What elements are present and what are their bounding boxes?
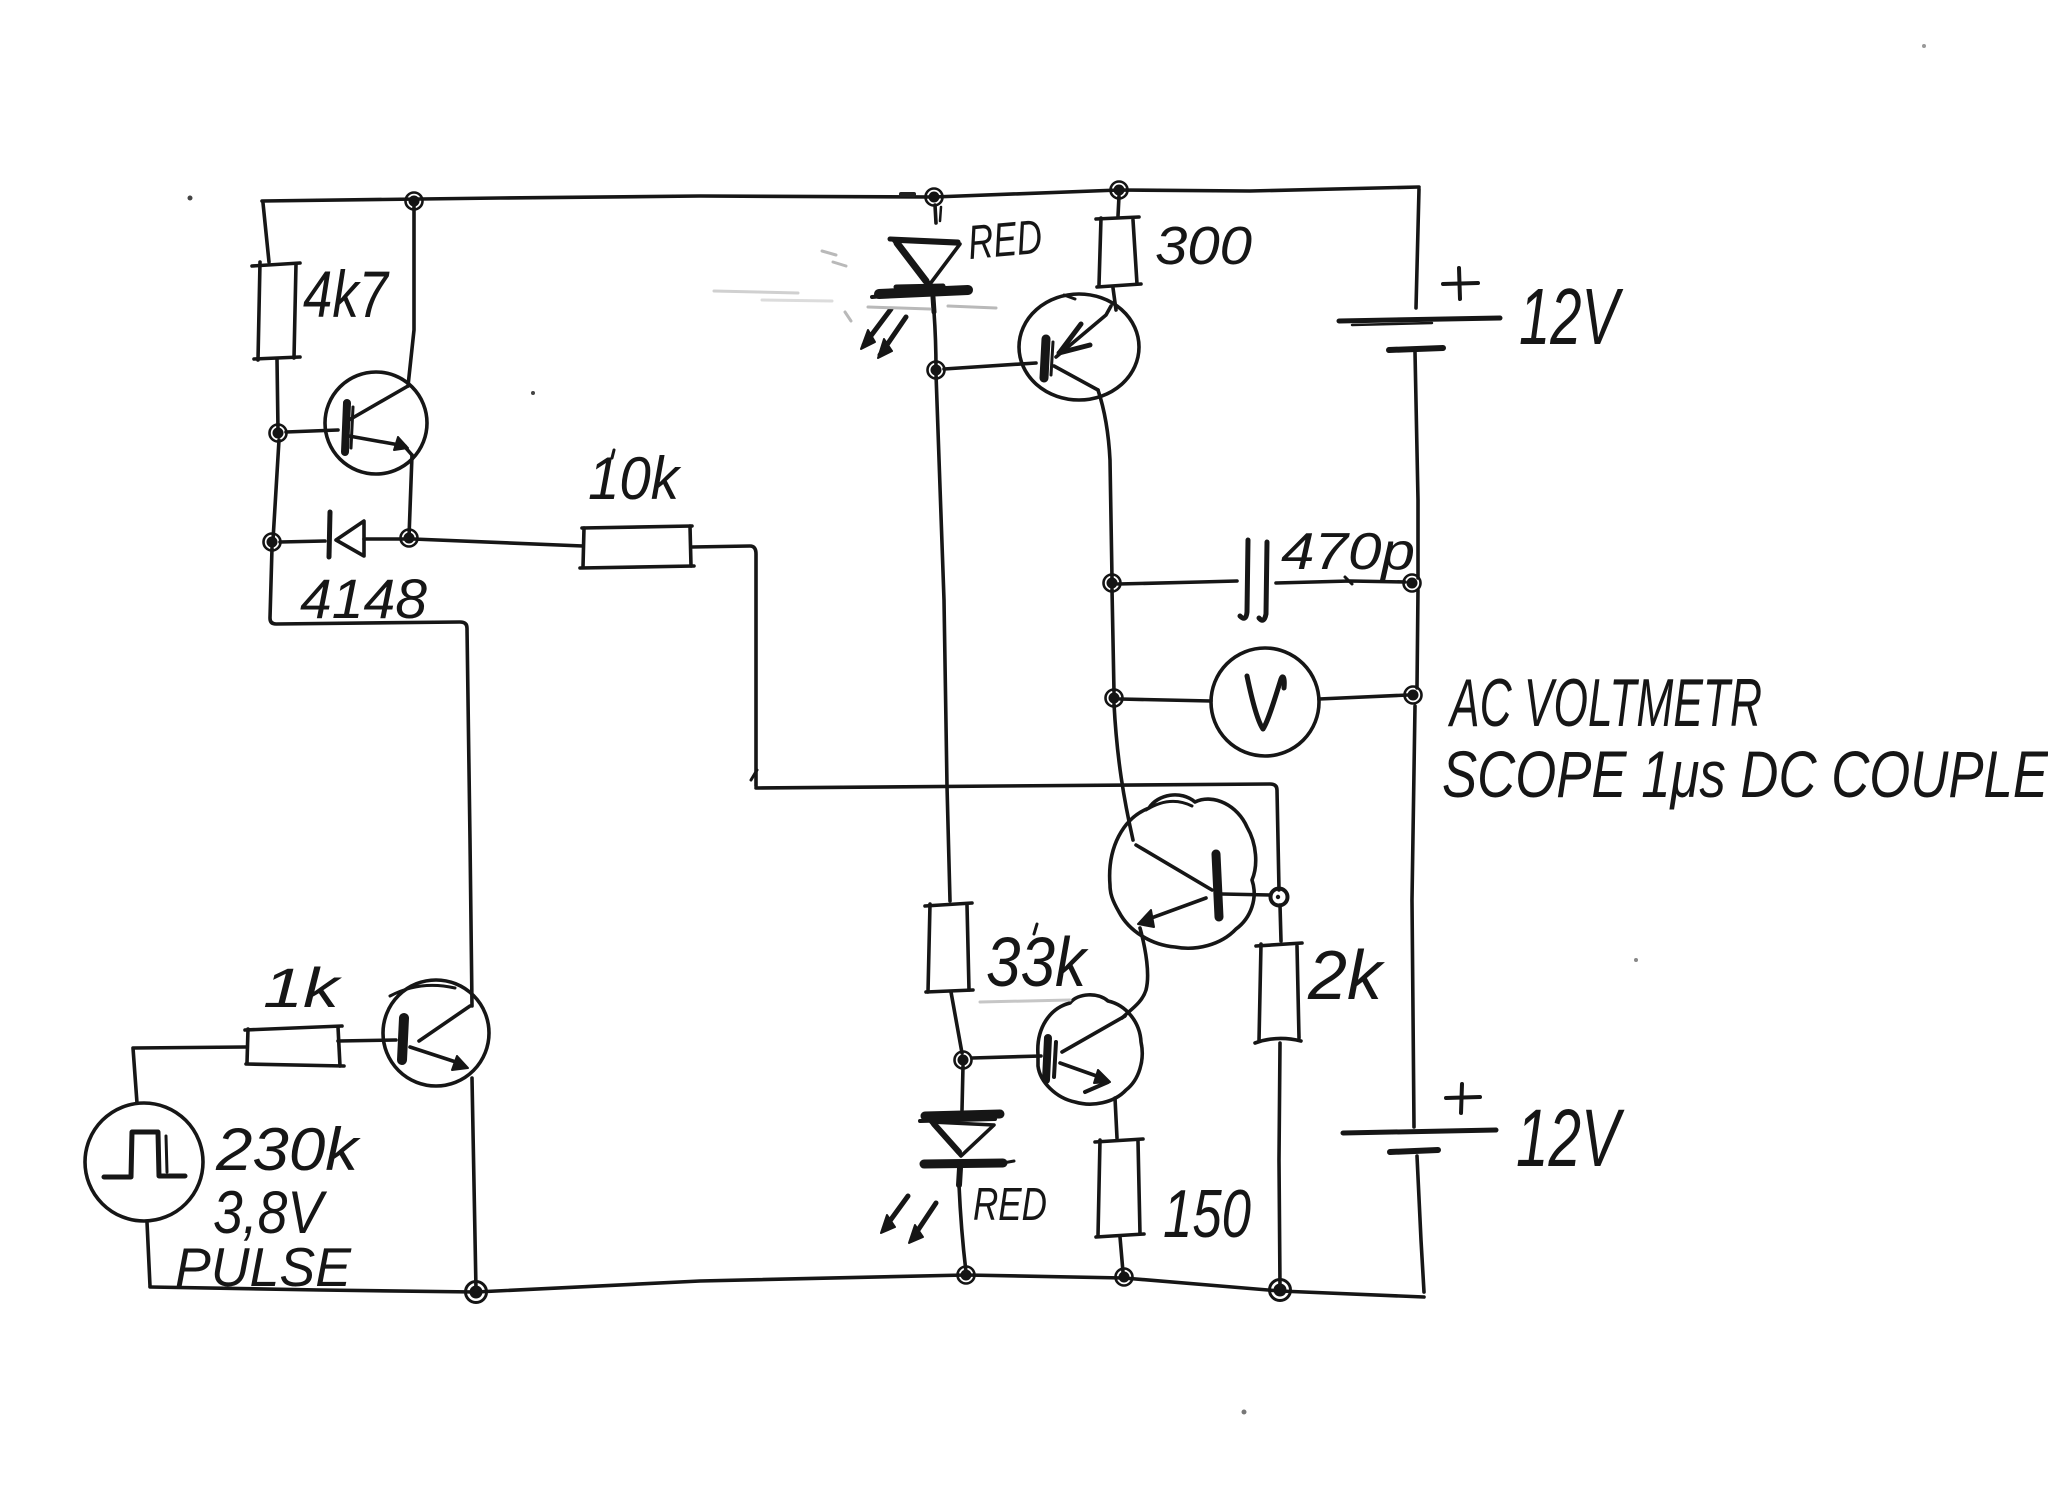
resistor 2k (1255, 943, 1302, 1043)
node capacitor 470p left (1104, 575, 1121, 592)
wire top rail to battery B1 (1416, 189, 1419, 308)
node right rail / voltmeter (1405, 687, 1422, 704)
diode 4148 (280, 512, 407, 557)
capacitor 470p (1118, 540, 1405, 620)
svg-text:RED: RED (966, 211, 1044, 270)
node Q3 collector / 2k (open ring) (1271, 889, 1288, 906)
wire right rail (battery B1 to battery B2) (1412, 352, 1418, 1127)
battery B1 12V (1339, 268, 1500, 350)
pulse generator source (85, 1103, 203, 1221)
wire Q2 collector down to capacitor node (1098, 390, 1112, 578)
transistor Q5 (383, 980, 489, 1086)
svg-text:SCOPE 1μs DC COUPLE: SCOPE 1μs DC COUPLE (1442, 737, 2048, 811)
wire Q4 base node to Q4 (972, 1056, 1041, 1058)
wire 33k branch (LED node down to 33k) (936, 374, 950, 901)
wire Q1 collector to top rail (408, 205, 414, 386)
wire battery B2 to bottom rail (1417, 1156, 1424, 1292)
LED D2 RED (bottom) (920, 1066, 1014, 1185)
resistor 300 (1096, 196, 1141, 310)
node Q4 base / LED D2 anode (955, 1052, 972, 1069)
node voltmeter left (1106, 690, 1123, 707)
faint underline below 33k (980, 1000, 1070, 1002)
light-emission arrows of LED D1 (861, 309, 906, 358)
wire voltmeter node down to Q3 (1114, 704, 1133, 840)
node top rail / LED D1 anode (926, 189, 943, 206)
node top rail / Q1 collector (406, 193, 423, 210)
wire Q1 emitter to diode node (409, 455, 412, 537)
wire left L-path to Q5 collector (270, 548, 472, 1006)
tick at mid wire corner (751, 770, 757, 780)
svg-text:4k7: 4k7 (303, 257, 390, 331)
transistor Q3 (1110, 795, 1270, 948)
light-emission arrows of LED D2 (881, 1196, 936, 1243)
wire Q4 collector to resistor 150 (1115, 1098, 1117, 1138)
battery B2 12V (1343, 1084, 1496, 1152)
resistor 4k7 (252, 262, 300, 360)
svg-text:RED: RED (973, 1178, 1047, 1230)
svg-text:10k: 10k (588, 445, 682, 512)
LED D1 RED (top) (872, 205, 968, 312)
svg-text:150: 150 (1163, 1176, 1251, 1252)
wire Q5 emitter to bottom rail (472, 1078, 476, 1290)
svg-text:33k: 33k (986, 923, 1089, 1001)
svg-text:300: 300 (1155, 216, 1252, 276)
transistor Q2 (944, 294, 1139, 400)
resistor 33k (925, 903, 973, 992)
wire resistor 10k right to mid wire (692, 546, 756, 786)
svg-text:470p: 470p (1281, 523, 1415, 581)
tick mark above 33k (1034, 924, 1037, 934)
resistor 10k (580, 526, 694, 568)
node bottom rail / LED D2 cathode (958, 1267, 975, 1284)
wire resistor 4k7 to Q1 base node (277, 359, 278, 430)
transistor Q1 (286, 372, 427, 474)
wire 33k to Q4 base node (951, 992, 962, 1053)
tick mark above 10k (612, 450, 614, 458)
wire LED D2 cathode to bottom rail (959, 1185, 966, 1272)
svg-text:AC VOLTMETR: AC VOLTMETR (1447, 665, 1762, 741)
node top rail / resistor 300 (1111, 182, 1128, 199)
node LED D1 cathode / Q2 base (928, 362, 945, 379)
faint smudges near LED D1 (714, 251, 996, 321)
wire pulse source to bottom rail (147, 1222, 150, 1286)
node diode 4148 cathode (264, 534, 281, 551)
voltmeter V (1120, 648, 1408, 756)
wire Q1 base node to diode node (273, 440, 279, 540)
resistor 150 (1095, 1139, 1144, 1237)
node Q1 base (270, 425, 287, 442)
svg-text:12V: 12V (1519, 272, 1624, 361)
svg-text:1k: 1k (263, 956, 343, 1019)
node bottom rail / resistor 2k (1270, 1280, 1291, 1301)
wire bottom ground rail (150, 1275, 1424, 1297)
svg-text:PULSE: PULSE (175, 1236, 352, 1298)
wire Q3 emitter S-curve to Q4 (1122, 928, 1148, 1018)
wire top supply rail (262, 187, 1419, 201)
wire resistor 2k to bottom rail (1279, 1043, 1280, 1287)
wire capacitor node to voltmeter node (1112, 589, 1114, 692)
wire resistor 150 to bottom rail (1120, 1237, 1123, 1272)
resistor 1k (245, 1026, 344, 1066)
svg-text:2k: 2k (1307, 936, 1385, 1014)
node right rail / capacitor 470p (1404, 575, 1421, 592)
stray ink dots (188, 44, 1927, 1415)
svg-text:12V: 12V (1516, 1093, 1625, 1184)
wire top rail to resistor 4k7 (263, 203, 269, 262)
wire diode node to resistor 10k (413, 539, 583, 546)
svg-text:230k: 230k (215, 1116, 361, 1183)
wire node to resistor 2k (1280, 905, 1281, 941)
wire pulse source to resistor 1k (133, 1047, 246, 1103)
node diode 4148 anode / emitter (401, 530, 418, 547)
wire LED D1 cathode to Q2 base node (934, 312, 936, 370)
node bottom rail / Q5 emitter (466, 1282, 487, 1303)
transistor Q4 (1038, 995, 1142, 1104)
svg-text:4148: 4148 (300, 567, 427, 630)
node bottom rail / resistor 150 (1116, 1269, 1133, 1286)
wire Q5 base to resistor 1k (338, 1040, 396, 1041)
wire mid horizontal (756, 784, 1279, 890)
